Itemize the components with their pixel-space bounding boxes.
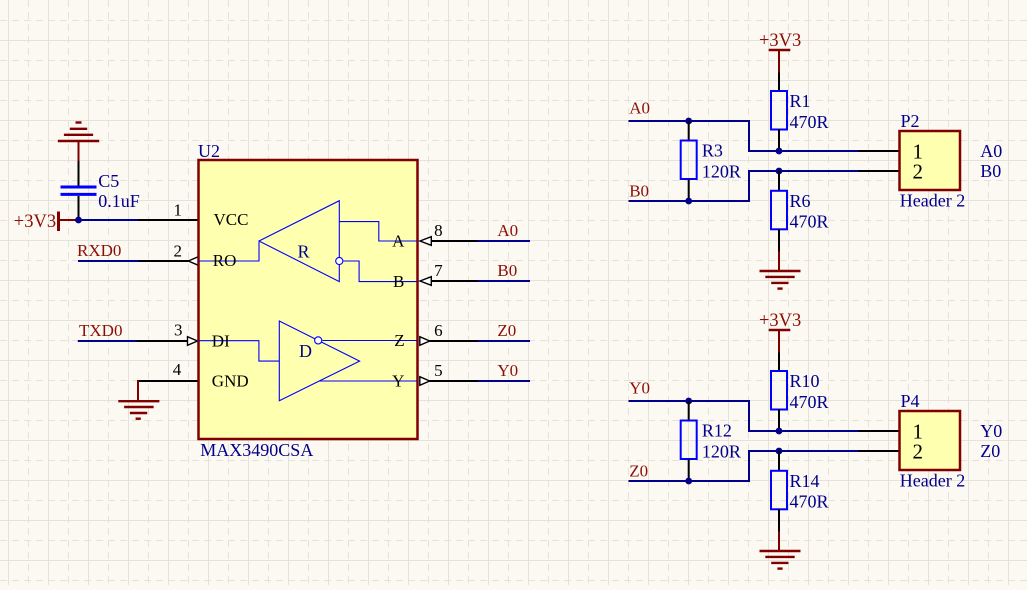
svg-text:R14: R14: [790, 471, 820, 491]
ground (earth) above C5: [58, 123, 99, 163]
junction node +3V3/C5/VCC: [75, 217, 82, 224]
svg-text:R: R: [298, 242, 310, 262]
wire R6 to ground: [778, 229, 780, 252]
svg-text:4: 4: [173, 360, 182, 379]
resistor R3 120R: [688, 121, 690, 141]
svg-text:B0: B0: [629, 182, 649, 201]
svg-text:R10: R10: [790, 371, 820, 391]
resistor R1 470R: [771, 91, 787, 130]
svg-text:8: 8: [434, 221, 443, 240]
svg-text:470R: 470R: [790, 112, 829, 132]
svg-text:Header 2: Header 2: [900, 471, 965, 491]
wire R14 to ground: [778, 509, 780, 532]
resistor R12 120R: [688, 401, 690, 421]
svg-text:RO: RO: [213, 251, 237, 270]
wire A0 row: [629, 121, 860, 151]
junction R6 / A0: [776, 168, 783, 175]
wire R1 to pin1 row: [778, 130, 780, 152]
pin 8 A of U2: [420, 237, 431, 246]
svg-text:DI: DI: [212, 331, 230, 350]
junction R1 / A0: [776, 148, 783, 155]
connector P4 Header 2: [900, 411, 961, 470]
svg-text:+3V3: +3V3: [14, 212, 56, 232]
svg-text:0.1uF: 0.1uF: [98, 191, 140, 211]
svg-text:C5: C5: [98, 171, 119, 191]
svg-text:2: 2: [913, 159, 924, 183]
wire Y0 row: [629, 401, 860, 431]
svg-text:Y0: Y0: [629, 379, 650, 398]
ground below R14: [760, 531, 801, 568]
svg-text:+3V3: +3V3: [759, 31, 801, 51]
resistor R6 470R: [778, 171, 780, 191]
wire +3V3 to R1: [778, 72, 780, 91]
svg-text:A: A: [392, 232, 405, 251]
svg-text:GND: GND: [212, 371, 249, 390]
junction R12 bottom: [685, 478, 692, 485]
svg-text:P2: P2: [901, 111, 920, 131]
wire RXD0: [78, 260, 140, 262]
wire Z0 row: [629, 451, 860, 481]
svg-text:120R: 120R: [702, 162, 741, 182]
wire node to pin 1: [75, 219, 139, 221]
wire Z0: [478, 340, 531, 342]
svg-text:Y: Y: [392, 371, 404, 390]
capacitor C5: [61, 187, 97, 194]
svg-text:MAX3490CSA: MAX3490CSA: [200, 440, 313, 460]
resistor R10 470R: [771, 371, 787, 410]
svg-text:Z: Z: [394, 331, 404, 350]
pin 1 of P4: [859, 430, 900, 432]
svg-text:6: 6: [434, 321, 443, 340]
svg-text:Z0: Z0: [980, 441, 1000, 461]
svg-text:VCC: VCC: [214, 210, 249, 229]
svg-text:7: 7: [434, 261, 443, 280]
svg-text:B: B: [393, 272, 404, 291]
junction R3 bottom: [685, 198, 692, 205]
svg-text:A0: A0: [980, 141, 1002, 161]
svg-text:470R: 470R: [790, 392, 829, 412]
svg-text:R6: R6: [790, 191, 811, 211]
svg-text:2: 2: [173, 241, 182, 260]
wire R10 to pin1 row: [778, 410, 780, 432]
wire Y0: [478, 380, 531, 382]
svg-text:Header 2: Header 2: [900, 191, 965, 211]
pin 2 RO of U2: [139, 260, 189, 262]
junction R12 top: [685, 398, 692, 405]
svg-text:U2: U2: [198, 141, 220, 161]
pin 2 of P4: [859, 450, 900, 452]
svg-text:P4: P4: [901, 391, 920, 411]
svg-text:A0: A0: [629, 99, 650, 118]
svg-text:+3V3: +3V3: [759, 311, 801, 331]
connector P2 Header 2: [900, 131, 961, 190]
resistor R14 470R: [778, 451, 780, 471]
pin 3 DI of U2: [137, 340, 188, 342]
svg-text:R1: R1: [790, 91, 811, 111]
svg-text:TXD0: TXD0: [79, 321, 122, 340]
wire TXD0: [78, 340, 138, 342]
svg-text:R12: R12: [702, 421, 732, 441]
wire B0: [478, 280, 531, 282]
wire B0 row: [629, 171, 860, 201]
wire A0: [478, 240, 531, 242]
wire ground to C5: [78, 161, 80, 186]
svg-text:1: 1: [173, 200, 182, 219]
receiver buffer R inside U2: [199, 201, 418, 282]
svg-text:470R: 470R: [790, 212, 829, 232]
IC U2 MAX3490CSA body: [199, 160, 418, 439]
pin 2 of P2: [859, 170, 900, 172]
pin 6 Z of U2: [420, 337, 430, 346]
junction R3 top: [685, 118, 692, 125]
svg-text:Z0: Z0: [497, 321, 516, 340]
svg-text:A0: A0: [497, 221, 518, 240]
pin 1 of P2: [859, 150, 900, 152]
svg-text:R3: R3: [702, 141, 723, 161]
svg-text:B0: B0: [980, 161, 1001, 181]
wire +3V3 to R10: [778, 352, 780, 371]
pin 1 VCC of U2: [138, 219, 199, 221]
ground below R6: [760, 251, 801, 288]
pin 4 GND of U2: [138, 380, 199, 382]
junction R10 / Y0: [776, 428, 783, 435]
pin 5 Y of U2: [420, 377, 430, 386]
ground below pin 4: [118, 380, 159, 419]
pin 7 B of U2: [420, 277, 431, 286]
svg-text:Y0: Y0: [497, 361, 518, 380]
svg-text:D: D: [299, 341, 312, 361]
svg-text:2: 2: [913, 439, 924, 463]
svg-text:3: 3: [174, 321, 183, 340]
svg-text:Y0: Y0: [980, 421, 1002, 441]
power port +3V3 (left): [57, 212, 60, 232]
svg-text:120R: 120R: [702, 442, 741, 462]
junction R14 / Y0: [776, 448, 783, 455]
svg-text:5: 5: [434, 361, 443, 380]
svg-text:Z0: Z0: [629, 462, 648, 481]
driver buffer D inside U2: [199, 321, 418, 401]
wire C5 to node: [78, 196, 80, 220]
svg-text:RXD0: RXD0: [77, 241, 121, 260]
svg-text:B0: B0: [497, 261, 517, 280]
svg-text:470R: 470R: [790, 492, 829, 512]
